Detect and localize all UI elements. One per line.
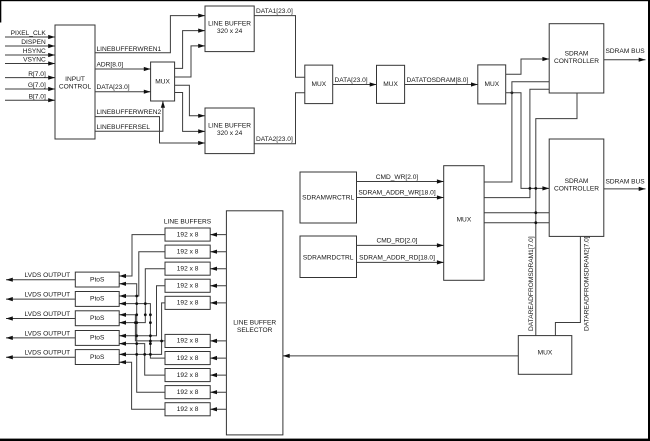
- wire selector to buffer 4: [210, 284, 226, 288]
- mux MUX2 (data1/data2 mux): [305, 65, 333, 104]
- svg-text:CMD_RD[2.0]: CMD_RD[2.0]: [376, 238, 417, 245]
- wire selector to buffer 6: [210, 339, 226, 343]
- wire MUX5 out2 up to SDRAM CONTROLLER 1: [484, 89, 549, 197]
- block PtoS #5: [75, 350, 119, 365]
- block PtoS #2: [75, 292, 119, 307]
- label LVDS OUTPUT 5: [25, 350, 71, 357]
- svg-text:LINE BUFFER: LINE BUFFER: [208, 21, 251, 28]
- wire CMD_WR[2.0]: [357, 179, 444, 183]
- svg-text:VSYNC: VSYNC: [23, 57, 46, 64]
- wire buffer1 to PtoS1 A: [119, 235, 165, 279]
- wire buffer9 to PtoS1 B: [119, 282, 165, 393]
- svg-text:320 x 24: 320 x 24: [217, 130, 243, 137]
- svg-text:DATATOSDRAM[8.0]: DATATOSDRAM[8.0]: [407, 77, 469, 84]
- block SDRAM CONTROLLER 2: [549, 139, 604, 236]
- wire selector to buffer 1: [210, 233, 226, 237]
- svg-text:SDRAM: SDRAM: [565, 178, 589, 185]
- block line buffer 192x8 #8: [165, 369, 210, 382]
- svg-text:SDRAMWRCTRL: SDRAMWRCTRL: [302, 194, 354, 201]
- svg-text:MUX: MUX: [311, 81, 326, 88]
- wire selector to buffer 8: [210, 373, 226, 377]
- wire LVDS OUTPUT 3: [6, 316, 75, 320]
- svg-text:192 x 8: 192 x 8: [177, 231, 199, 238]
- wire selector to buffer 3: [210, 267, 226, 271]
- block SDRAMWRCTRL: [300, 172, 357, 223]
- wire MUX1 data to LINE BUFFER 1: [175, 44, 205, 77]
- label LINEBUFFERWREN2: [97, 109, 162, 116]
- svg-text:LINEBUFFERWREN2: LINEBUFFERWREN2: [97, 109, 162, 116]
- wire ADR[8.0]: [95, 67, 151, 71]
- svg-text:SDRAM BUS: SDRAM BUS: [606, 179, 646, 186]
- svg-text:DATA2[23.0]: DATA2[23.0]: [256, 136, 293, 143]
- wire buffer2 to PtoS2 A: [119, 252, 165, 298]
- wire MUX4 to SDRAM CONTROLLER 1: [506, 57, 550, 74]
- svg-text:LVDS OUTPUT: LVDS OUTPUT: [25, 292, 71, 299]
- svg-text:LINE BUFFER: LINE BUFFER: [208, 123, 251, 130]
- wire SDRAM BUS 2: [604, 187, 646, 191]
- label CMD_RD[2.0]: [376, 238, 417, 245]
- wire MUX5 out3 to SDRAM CONTROLLER 2: [484, 212, 549, 214]
- wire DATA2[23.0]: [254, 93, 305, 144]
- wire LINEBUFFERSEL: [95, 101, 165, 131]
- svg-text:DISPEN: DISPEN: [21, 39, 46, 46]
- block line buffer 192x8 #7: [165, 352, 210, 365]
- wire DISPEN: [5, 44, 55, 48]
- junction dot cmd line crosses data-to-ctrl2: [529, 187, 532, 190]
- wire LINEBUFFERWREN2: [95, 117, 205, 146]
- wire selector to buffer 9: [210, 390, 226, 394]
- svg-text:ADR[8.0]: ADR[8.0]: [97, 62, 124, 69]
- wire LVDS OUTPUT 1: [6, 278, 75, 282]
- svg-text:R[7.0]: R[7.0]: [28, 71, 46, 78]
- svg-text:192 x 8: 192 x 8: [177, 355, 199, 362]
- label DATAREADFROMSDRAM2[7.0]: [583, 236, 590, 331]
- label SDRAM_ADDR_RD[18.0]: [359, 254, 435, 261]
- wire HSYNC: [5, 53, 55, 57]
- svg-text:LVDS OUTPUT: LVDS OUTPUT: [25, 330, 71, 337]
- label LVDS OUTPUT 3: [25, 311, 71, 318]
- label LINEBUFFERSEL: [97, 124, 151, 131]
- svg-text:DATAREADFROMSDRAM2[7.0]: DATAREADFROMSDRAM2[7.0]: [583, 236, 590, 331]
- svg-text:320 x 24: 320 x 24: [217, 28, 243, 35]
- svg-text:192 x 8: 192 x 8: [177, 406, 199, 413]
- label DATA[23.0] bus: [335, 77, 368, 84]
- wire MUX1 adr to LINE BUFFER 1: [175, 29, 205, 69]
- svg-text:LVDS OUTPUT: LVDS OUTPUT: [25, 350, 71, 357]
- wire MUX1 data to LINE BUFFER 2: [175, 93, 205, 134]
- wire MUX5 out4 to SDRAM CONTROLLER 2: [484, 222, 549, 224]
- wire LVDS OUTPUT 5: [6, 355, 75, 359]
- label VSYNC: [23, 57, 46, 64]
- svg-text:CONTROLLER: CONTROLLER: [554, 58, 599, 65]
- block line buffer 192x8 #2: [165, 245, 210, 258]
- block SDRAM CONTROLLER 1: [549, 24, 604, 93]
- junction dot MUX4 branch / cmd line: [511, 91, 514, 94]
- svg-text:PtoS: PtoS: [90, 335, 105, 342]
- svg-text:CMD_WR[2.0]: CMD_WR[2.0]: [376, 174, 419, 181]
- junction dots in line buffer weave: [135, 295, 138, 298]
- label G[7.0]: [28, 82, 46, 89]
- label DATA1[23.0]: [256, 8, 293, 15]
- label LINEBUFFERWREN1: [97, 46, 162, 53]
- svg-text:MUX: MUX: [538, 349, 553, 356]
- block line buffer 192x8 #4: [165, 279, 210, 292]
- wire CMD_RD[2.0]: [357, 243, 444, 247]
- svg-text:MUX: MUX: [383, 81, 398, 88]
- svg-text:DATA1[23.0]: DATA1[23.0]: [256, 8, 293, 15]
- svg-text:SDRAMRDCTRL: SDRAMRDCTRL: [303, 255, 354, 262]
- label LVDS OUTPUT 1: [25, 272, 71, 279]
- wire DATAREADFROMSDRAM2[7.0]: [555, 236, 580, 335]
- mux MUX6 (read data mux): [518, 336, 572, 375]
- label DATATOSDRAM[8.0]: [407, 77, 469, 84]
- svg-text:PIXEL_CLK: PIXEL_CLK: [11, 30, 47, 37]
- wire DATA[23.0] to MUX3: [333, 82, 377, 86]
- svg-text:CONTROLLER: CONTROLLER: [554, 185, 599, 192]
- wire MUX6 to LINE BUFFER SELECTOR: [283, 354, 518, 358]
- svg-text:LINEBUFFERWREN1: LINEBUFFERWREN1: [97, 46, 162, 53]
- mux MUX3 (data mux): [377, 65, 405, 103]
- label SDRAM BUS 1: [606, 48, 646, 55]
- svg-text:LINE BUFFERS: LINE BUFFERS: [164, 219, 212, 226]
- wire DATAREADFROMSDRAM1[7.0]: [536, 93, 577, 336]
- wire SDRAM_ADDR_RD[18.0]: [357, 260, 444, 264]
- svg-text:SDRAM_ADDR_RD[18.0]: SDRAM_ADDR_RD[18.0]: [359, 254, 435, 261]
- wire MUX5 out1 up to SDRAM CONTROLLER 1: [484, 82, 549, 182]
- wire MUX1 adr to LINE BUFFER 2: [175, 85, 205, 118]
- label R[7.0]: [28, 71, 46, 78]
- label DATA2[23.0]: [256, 136, 293, 143]
- svg-text:INPUT: INPUT: [65, 76, 85, 83]
- wire buffer6 to PtoS3 A: [119, 313, 165, 341]
- label SDRAM_ADDR_WR[18.0]: [358, 190, 435, 197]
- block LINE BUFFER 1 (320 x 24): [205, 6, 254, 52]
- wire LINEBUFFERWREN1: [95, 14, 205, 53]
- wire PIXEL_CLK: [5, 35, 55, 39]
- block line buffer 192x8 #6: [165, 334, 210, 347]
- wire G[7.0]: [5, 87, 55, 91]
- svg-text:192 x 8: 192 x 8: [177, 248, 199, 255]
- block line buffer 192x8 #10: [165, 403, 210, 416]
- svg-text:LVDS OUTPUT: LVDS OUTPUT: [25, 311, 71, 318]
- block INPUT CONTROL U1: [55, 25, 95, 139]
- block LINE BUFFER 2 (320 x 24): [205, 108, 254, 154]
- svg-text:CONTROL: CONTROL: [59, 83, 92, 90]
- svg-text:SDRAM: SDRAM: [565, 50, 589, 57]
- svg-text:PtoS: PtoS: [90, 276, 105, 283]
- wire buffer5 to PtoS5 A: [119, 303, 165, 357]
- label HSYNC: [23, 48, 46, 55]
- svg-text:192 x 8: 192 x 8: [177, 372, 199, 379]
- label LVDS OUTPUT 4: [25, 330, 71, 337]
- svg-text:192 x 8: 192 x 8: [177, 283, 199, 290]
- svg-text:PtoS: PtoS: [90, 354, 105, 361]
- wire buffer7 to PtoS2 B: [119, 302, 165, 359]
- wire buffer8 to PtoS4 B: [119, 342, 165, 376]
- svg-text:PtoS: PtoS: [90, 315, 105, 322]
- block line buffer 192x8 #1: [165, 228, 210, 241]
- label DATAREADFROMSDRAM1[7.0]: [528, 236, 535, 331]
- label CMD_WR[2.0]: [376, 174, 419, 181]
- block line buffer 192x8 #5: [165, 296, 210, 309]
- label SDRAM BUS 2: [606, 179, 646, 186]
- svg-text:LINEBUFFERSEL: LINEBUFFERSEL: [97, 124, 151, 131]
- wire LVDS OUTPUT 2: [6, 297, 75, 301]
- svg-text:SDRAM_ADDR_WR[18.0]: SDRAM_ADDR_WR[18.0]: [358, 190, 435, 197]
- wire buffer10 to PtoS5 B: [119, 360, 165, 409]
- svg-text:DATA[23.0]: DATA[23.0]: [335, 77, 368, 84]
- wire MUX4 data branch down to SDRAM CONTROLLER 2: [506, 93, 550, 191]
- svg-text:PtoS: PtoS: [90, 296, 105, 303]
- svg-text:DATAREADFROMSDRAM1[7.0]: DATAREADFROMSDRAM1[7.0]: [528, 236, 535, 331]
- wire LVDS OUTPUT 4: [6, 336, 75, 340]
- block PtoS #4: [75, 331, 119, 346]
- wire SDRAM BUS 1: [604, 58, 646, 62]
- svg-text:SDRAM BUS: SDRAM BUS: [606, 48, 646, 55]
- wire selector to buffer 7: [210, 356, 226, 360]
- wire SDRAM_ADDR_WR[18.0]: [357, 195, 444, 199]
- svg-text:HSYNC: HSYNC: [23, 48, 46, 55]
- wire R[7.0]: [5, 76, 55, 80]
- svg-text:MUX: MUX: [457, 217, 472, 224]
- wire buffer4 to PtoS4 A: [119, 286, 165, 338]
- svg-text:B[7.0]: B[7.0]: [29, 93, 46, 100]
- svg-text:LINE BUFFER: LINE BUFFER: [233, 319, 276, 326]
- label B[7.0]: [29, 93, 46, 100]
- label LINE BUFFERS header: [164, 219, 212, 226]
- wire buffer3 to PtoS3 B: [119, 269, 165, 325]
- label ADR[8.0]: [97, 62, 124, 69]
- mux MUX4 (data to sdram mux): [478, 65, 506, 104]
- svg-text:192 x 8: 192 x 8: [177, 389, 199, 396]
- wire selector to buffer 5: [210, 301, 226, 305]
- page border frame: [0, 0, 650, 1]
- svg-text:192 x 8: 192 x 8: [177, 338, 199, 345]
- label DATA[23.0]: [97, 84, 130, 91]
- label PIXEL_CLK: [11, 30, 47, 37]
- mux MUX1 (line buffer write mux): [151, 62, 175, 101]
- mux MUX5 (sdram cmd/addr mux): [444, 166, 484, 281]
- svg-text:192 x 8: 192 x 8: [177, 300, 199, 307]
- label LVDS OUTPUT 2: [25, 292, 71, 299]
- wire selector to buffer 2: [210, 250, 226, 254]
- wire VSYNC: [5, 61, 55, 65]
- svg-text:MUX: MUX: [155, 78, 170, 85]
- svg-text:192 x 8: 192 x 8: [177, 265, 199, 272]
- svg-text:G[7.0]: G[7.0]: [28, 82, 46, 89]
- block PtoS #3: [75, 311, 119, 326]
- svg-text:SELECTOR: SELECTOR: [237, 327, 273, 334]
- svg-text:DATA[23.0]: DATA[23.0]: [97, 84, 130, 91]
- wire DATATOSDRAM[8.0]: [405, 82, 478, 86]
- wire DATA[23.0] to MUX1: [95, 90, 151, 94]
- block SDRAMRDCTRL: [300, 236, 357, 278]
- svg-text:LVDS OUTPUT: LVDS OUTPUT: [25, 272, 71, 279]
- block line buffer 192x8 #3: [165, 262, 210, 275]
- block PtoS #1: [75, 272, 119, 287]
- junction dots on DATAREADFROMSDRAM1 vertical: [534, 187, 537, 190]
- block LINE BUFFER SELECTOR: [226, 211, 283, 435]
- wire selector to buffer 10: [210, 407, 226, 411]
- block line buffer 192x8 #9: [165, 386, 210, 399]
- wire B[7.0]: [5, 98, 55, 102]
- wire DATA1[23.0]: [254, 16, 305, 78]
- svg-text:MUX: MUX: [484, 81, 499, 88]
- label DISPEN: [21, 39, 46, 46]
